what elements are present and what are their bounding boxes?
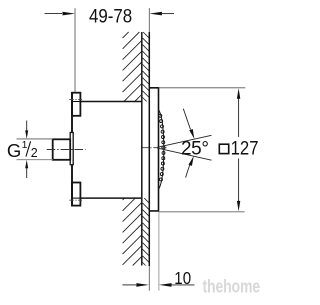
G1/2 top arrow [26, 121, 28, 132]
127 dimension line upper segment [238, 97, 240, 137]
wall finished-surface line [148, 32, 150, 266]
49-78 dimension line right tail [162, 13, 174, 15]
10 right arrow [159, 283, 172, 287]
escutcheon plate (square 127, edge view) [149, 88, 158, 211]
svg-text:thehome: thehome [203, 277, 261, 297]
10 dimension line right tail [172, 284, 195, 286]
wall masonry hatch [123, 32, 142, 266]
spray face bead rings [159, 114, 162, 117]
rough-in body bottom edge [80, 197, 141, 199]
square symbol [219, 144, 228, 153]
svg-text:49-78: 49-78 [89, 6, 132, 28]
G1/2 bottom arrow [26, 168, 28, 179]
svg-text:1: 1 [22, 139, 28, 151]
svg-text:127: 127 [231, 138, 259, 160]
127 extension line top [159, 87, 246, 89]
G1/2 inlet nipple [53, 139, 70, 160]
top mounting lug [72, 93, 80, 116]
G1/2 extension line top [17, 138, 54, 140]
10 extension line (plate front) [158, 212, 160, 291]
cone upper line [157, 135, 211, 147]
10 left arrow [136, 283, 149, 287]
10 extension line (wall surface, below) [148, 266, 150, 291]
svg-text:2: 2 [31, 146, 38, 160]
cone lower line [157, 148, 211, 160]
svg-text:25°: 25° [181, 138, 209, 159]
inlet flange washer [70, 133, 73, 165]
top screw axis centerline [69, 98, 82, 100]
G1/2 extension line bottom [17, 159, 54, 161]
49-78 left arrow [63, 12, 76, 16]
rough-in body top edge [80, 101, 141, 103]
49-78 right arrow [149, 12, 162, 16]
127 extension line bottom [159, 211, 245, 213]
nipple axis centerline [47, 149, 86, 151]
svg-text:10: 10 [174, 268, 191, 288]
top lug inner edge [73, 101, 80, 103]
wall inner boundary line [141, 32, 143, 266]
rough-in front face [71, 92, 73, 206]
49-78 extension line (wall surface) [148, 8, 150, 32]
49-78 dimension line left tail [45, 13, 63, 15]
spray axis centerline [143, 147, 167, 149]
svg-text:G: G [7, 140, 21, 161]
bottom lug inner edge [73, 197, 80, 199]
wall finish-layer hatch [143, 32, 150, 266]
lower angle arrow [186, 164, 191, 178]
127 dimension line lower segment [238, 159, 240, 203]
10 dimension line left tail [122, 284, 136, 286]
spray face dome profile [159, 110, 164, 189]
upper angle arrow [183, 109, 190, 130]
bottom screw axis centerline [69, 199, 82, 201]
49-78 extension line (rough-in face) [74, 8, 76, 92]
bottom mounting lug [72, 183, 80, 206]
